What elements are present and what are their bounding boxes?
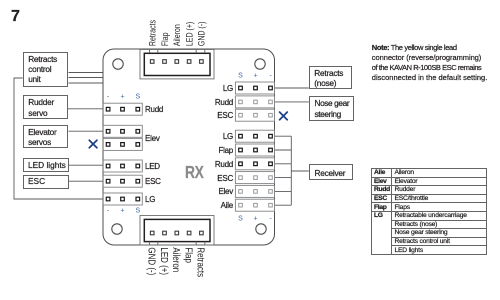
svg-text:Retracts: Retracts: [195, 247, 206, 277]
svg-text:S: S: [135, 94, 140, 101]
svg-text:+: +: [253, 72, 257, 79]
svg-text:Aileron: Aileron: [172, 24, 182, 46]
svg-text:LED (+): LED (+): [159, 247, 170, 275]
svg-text:+: +: [120, 207, 124, 214]
svg-text:GND (-): GND (-): [197, 21, 207, 46]
svg-text:+: +: [253, 215, 257, 222]
svg-text:S: S: [135, 207, 140, 214]
svg-text:S: S: [238, 215, 243, 222]
svg-text:Flap: Flap: [183, 247, 194, 263]
svg-text:Flap: Flap: [160, 32, 170, 46]
svg-text:LED (+): LED (+): [185, 21, 195, 46]
svg-text:Aileron: Aileron: [171, 247, 182, 272]
svg-text:Retracts: Retracts: [148, 20, 158, 46]
svg-text:S: S: [238, 72, 243, 79]
svg-text:GND (-): GND (-): [146, 247, 157, 275]
svg-text:+: +: [120, 94, 124, 101]
